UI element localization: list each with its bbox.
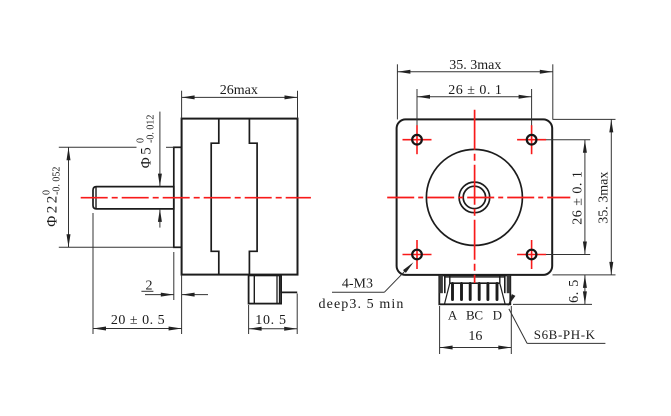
- dim 10.5 dimension line: [249, 328, 298, 330]
- svg-text:D: D: [493, 308, 502, 323]
- dim 26 right dimension line: [584, 140, 586, 255]
- dim 35.3 right text: [597, 172, 612, 224]
- dim 26 right extension lines: [537, 139, 590, 141]
- mounting hole bottom-right: [527, 250, 537, 260]
- centerline (side view): [81, 197, 311, 199]
- motor flange square: [397, 119, 553, 275]
- svg-text:35. 3max: 35. 3max: [597, 172, 612, 224]
- vertical centerline (front view): [474, 110, 476, 283]
- dim 26 right text: [571, 171, 586, 225]
- connector side tab: [281, 275, 297, 292]
- hole crosshair bottom-right: [517, 254, 546, 256]
- shaft end cap line: [95, 187, 97, 209]
- svg-text:26max: 26max: [220, 83, 258, 98]
- connector diagonal right: [500, 283, 505, 303]
- svg-text:20 ± 0. 5: 20 ± 0. 5: [111, 313, 165, 328]
- svg-text:10. 5: 10. 5: [255, 313, 287, 328]
- dim 16 dimension line: [440, 347, 512, 349]
- svg-text:A: A: [448, 308, 458, 323]
- dim phi5 dimension lines: [159, 112, 161, 187]
- connector side inner line 1: [253, 275, 255, 303]
- hole crosshair bottom-left: [403, 254, 432, 256]
- svg-text:C: C: [474, 308, 483, 323]
- hole crosshair top-left: [403, 139, 432, 141]
- pilot boss (side view): [174, 147, 182, 247]
- svg-text:Φ22: Φ22: [45, 193, 61, 226]
- dim phi22 extension lines: [59, 146, 137, 148]
- connector pins: [453, 284, 498, 300]
- dim 6.5 extension line: [513, 303, 592, 305]
- svg-text:Φ5: Φ5: [139, 145, 155, 168]
- label S6B-PH-K leader: [527, 342, 605, 344]
- svg-text:S6B-PH-K: S6B-PH-K: [534, 327, 596, 342]
- connector side inner line 3: [279, 275, 281, 303]
- svg-text:16: 16: [468, 329, 482, 344]
- dim 6.5 dimension line: [584, 275, 586, 305]
- svg-text:35. 3max: 35. 3max: [449, 58, 501, 73]
- svg-text:deep3. 5 min: deep3. 5 min: [319, 297, 405, 312]
- hole crosshair top-right: [517, 139, 546, 141]
- pilot circle: [426, 149, 522, 245]
- svg-text:6. 5: 6. 5: [567, 279, 582, 303]
- lamination step line left: [211, 119, 219, 275]
- svg-text:-0. 052: -0. 052: [52, 167, 63, 195]
- connector diagonal left: [445, 283, 450, 303]
- dim phi22 dimension line: [68, 147, 70, 247]
- dim 26 top dimension line: [417, 96, 532, 98]
- svg-text:26 ± 0. 1: 26 ± 0. 1: [448, 83, 502, 98]
- dim 16 extension lines: [439, 306, 441, 354]
- dim 20 extension lines: [92, 213, 94, 334]
- dim 26max extension lines: [181, 91, 183, 119]
- dim 26max dimension line: [182, 96, 298, 98]
- mounting hole top-right: [527, 135, 537, 145]
- dim 2 arrows: [145, 294, 174, 296]
- svg-text:-0. 012: -0. 012: [146, 115, 157, 143]
- dim phi5 text: [136, 115, 157, 169]
- connector side inner line 2: [276, 275, 278, 303]
- horizontal centerline (front view): [387, 197, 570, 199]
- connector top band: [445, 276, 505, 278]
- dim 20 dimension line: [93, 328, 182, 330]
- dim 35.3 right extension lines: [553, 118, 616, 120]
- dim 35.3 top dimension line: [397, 71, 552, 73]
- connector (front view) outline: [439, 275, 510, 304]
- svg-text:26 ± 0. 1: 26 ± 0. 1: [571, 171, 586, 225]
- dim phi22 text: [42, 167, 63, 227]
- label 4-M3 leader: [332, 291, 384, 293]
- connector (side view) body: [249, 275, 282, 303]
- dim 26 top extension lines: [416, 89, 418, 150]
- dim 6.5 text: [567, 279, 582, 303]
- motor body outline (side view): [182, 119, 298, 275]
- dim 2 extension line: [173, 252, 175, 300]
- connector right wall bar: [507, 275, 511, 293]
- shaft (side view): [93, 187, 174, 209]
- hub ring outer: [459, 182, 490, 213]
- connector left wall bar: [439, 275, 443, 293]
- svg-text:4-M3: 4-M3: [342, 277, 373, 292]
- dim 35.3 top extension lines: [396, 64, 398, 119]
- lamination step line right: [249, 119, 257, 275]
- mounting hole top-left: [412, 135, 422, 145]
- shaft circle: [463, 186, 485, 208]
- dim 10.5 extension lines: [248, 305, 250, 334]
- dim 35.3 right dimension line: [610, 119, 612, 275]
- mounting hole bottom-left: [412, 250, 422, 260]
